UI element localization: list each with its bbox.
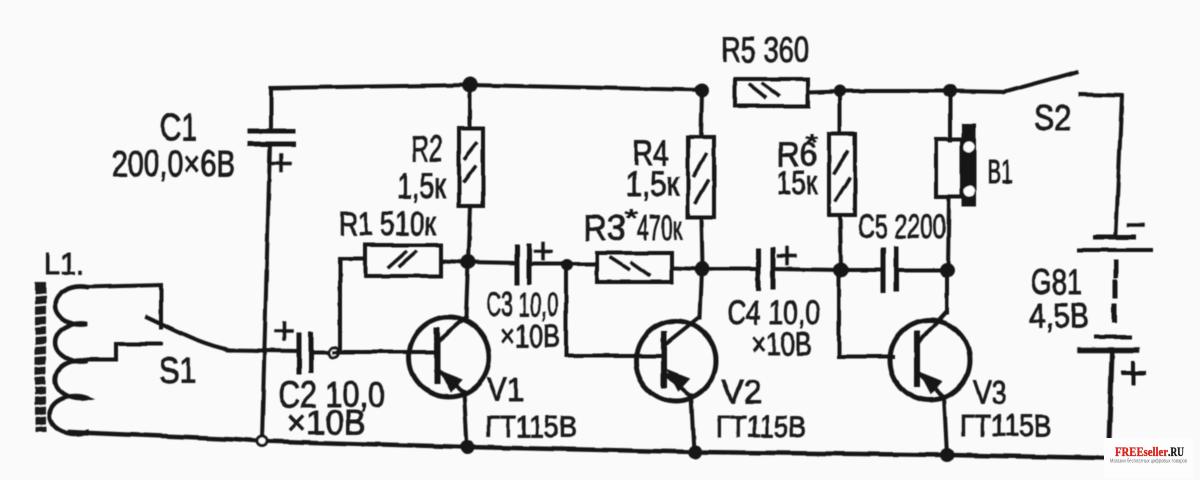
svg-text:470к: 470к [637,209,682,248]
capacitor C2 [276,323,311,372]
svg-text:L1.: L1. [44,246,84,281]
resistor R5 [735,79,808,106]
wire ground rail [70,432,1105,458]
earphone B1 [936,91,976,270]
resistor R2 [459,85,483,262]
capacitor C3 [468,243,597,283]
node top rail at R4 [695,83,709,97]
svg-text:ГТ115В: ГТ115В [485,409,577,444]
svg-text:1,5к: 1,5к [397,167,447,206]
watermark FREEseller.RU logo [1104,438,1193,478]
svg-text:C5 2200: C5 2200 [858,208,946,246]
svg-text:R3: R3 [583,209,626,248]
svg-text:ГТ115В: ГТ115В [960,408,1052,443]
node C5/B1/V3 collector junction [940,263,955,278]
svg-text:*: * [806,130,819,155]
node top rail at R6 [834,85,846,97]
svg-text:15к: 15к [777,164,817,201]
node ground at V1 emitter [460,440,474,454]
transistor V2 [636,269,716,452]
coil L1 windings [49,286,87,434]
wire node down to V3 base [839,270,893,357]
capacitor C1 [250,88,293,171]
capacitor C4 [702,248,841,288]
svg-text:×10В: ×10В [500,318,560,354]
resistor R3 [597,253,702,282]
svg-text:B1: B1 [987,153,1013,190]
wire C1 bottom to ground rail [262,144,270,440]
svg-text:ГТ115В: ГТ115В [716,409,806,444]
svg-text:×10В: ×10В [287,404,366,442]
switch S2 blade [1004,72,1077,92]
svg-text:S1: S1 [159,350,196,391]
node at R2/R1/C3/V1 collector [461,255,476,270]
capacitor C5 [841,249,947,290]
resistor R6 [829,91,855,270]
wire S2 to battery [1080,94,1122,233]
wire coil tap step to S1 lower contact [88,344,161,360]
node top rail at B1 [943,84,957,98]
node open at R1 left lead junction [329,347,339,357]
svg-text:×10В: ×10В [751,326,812,362]
wire S1 to C2 [228,350,298,351]
transistor V1 [409,262,489,447]
svg-text:V2: V2 [722,373,762,410]
wire top rail right segment [808,91,1004,92]
node ground at C1 (open) [257,436,267,446]
resistor R4 [688,90,714,269]
battery GB1 [1079,225,1151,442]
svg-text:1,5к: 1,5к [626,165,680,204]
svg-text:Магазин бесплатных цифровых то: Магазин бесплатных цифровых товаров [1110,459,1187,465]
node R3/R4/C4/V2 collector [695,262,710,277]
transistor V3 [890,270,970,455]
node C4/R6/C5/V3 base junction [834,263,849,278]
svg-text:*: * [624,205,638,232]
node top rail at R2 [462,77,478,93]
node ground at V3 emitter [940,448,954,462]
node C3/R3/V2 base junction [561,259,573,271]
svg-text:S2: S2 [1034,99,1071,138]
wire node to V2 base [566,265,663,356]
svg-text:FREEseller: FREEseller [1115,444,1168,459]
svg-text:V1: V1 [487,371,524,408]
wire coil top to S1 contact [87,285,161,327]
svg-text:R5 360: R5 360 [721,29,809,70]
resistor R1 [334,245,468,352]
svg-text:4,5В: 4,5В [1029,297,1089,336]
switch S1 blade [147,317,230,350]
coil L1 ferrite core [35,282,46,432]
node ground at V2 emitter [688,445,702,459]
svg-text:.RU: .RU [1168,444,1184,459]
svg-text:V3: V3 [973,374,1007,411]
svg-text:R1 510к: R1 510к [339,205,436,242]
svg-text:R2: R2 [411,128,443,169]
wire C2 to V1 base [311,350,434,354]
wire top rail left segment [271,85,702,90]
svg-text:200,0×6В: 200,0×6В [112,143,235,184]
